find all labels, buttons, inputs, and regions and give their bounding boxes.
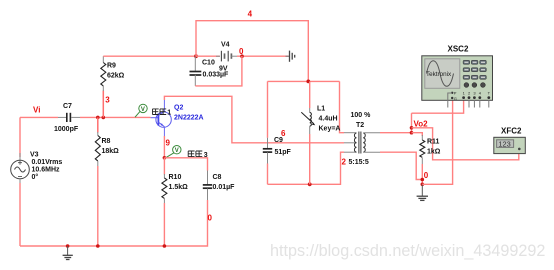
label Vo2 [414,119,429,128]
resistor R11 [420,139,441,185]
svg-text:10.6MHz: 10.6MHz [32,167,61,174]
wire C10 bottom to node 0 [195,56,242,86]
inductor L1 [301,81,340,184]
wire Vo2 to R11 [412,133,423,140]
oscilloscope XSC2 [422,45,493,102]
label node 9 [166,139,171,148]
svg-text:51pF: 51pF [275,149,292,156]
wire node3 up to R9 [102,86,104,117]
wire XFC2 branch [412,128,519,160]
source V3 [11,151,63,183]
svg-text:0: 0 [208,214,213,223]
svg-text:L1: L1 [317,106,325,113]
svg-text:R8: R8 [102,138,111,145]
resistor R8 [95,117,119,246]
scope stub ch3 [473,100,475,108]
battery V4 [196,42,237,73]
wire C8 to rail [20,200,208,246]
node junction 3 [102,116,106,120]
svg-text:100 %: 100 % [351,112,372,119]
wire T2 secondary bottom to node 0 [380,152,422,179]
svg-text:0.01µF: 0.01µF [213,184,236,191]
label node 6 [281,129,286,138]
wire C7 to node 3 [71,116,151,118]
label 2N2222A [174,115,204,122]
svg-text:V3: V3 [30,151,39,158]
svg-text:2N2222A: 2N2222A [174,115,204,122]
svg-text:0.01Vrms: 0.01Vrms [32,159,63,166]
svg-text:C8: C8 [213,174,222,181]
wire R9 top to node4 junction [103,55,196,57]
svg-text:4: 4 [248,10,253,19]
svg-text:T2: T2 [356,122,364,129]
node junction 9 [163,156,167,160]
wire rail node 4 [196,21,308,82]
wire T2 secondary top to Vo2 [380,132,412,134]
svg-text:1.5kΩ: 1.5kΩ [169,184,189,191]
node junction R8 bottom [96,244,100,248]
wire Vo2 vertical [411,113,413,133]
svg-text:XFC2: XFC2 [501,127,522,136]
svg-text:1000pF: 1000pF [54,126,79,133]
scope stub P [448,93,452,108]
resistor R9 [101,56,125,86]
label node 2 [342,158,347,167]
label Vi [33,106,40,115]
ground earth right of V4 [286,51,295,62]
svg-text:6: 6 [281,129,286,138]
frequency counter XFC2 [494,127,526,154]
scope stub ch2 [468,100,470,108]
svg-text:Tektronix: Tektronix [426,71,452,78]
svg-text:3: 3 [105,95,110,104]
label probe3 (CJK tanzhen3) [188,151,208,159]
svg-text:Vo2: Vo2 [414,119,429,128]
svg-text:5:15:5: 5:15:5 [349,159,369,166]
label node 0 C8 [208,214,213,223]
label C9 [274,137,283,144]
svg-text:XSC2: XSC2 [448,45,469,54]
svg-text:2: 2 [342,158,347,167]
label node 4 [248,10,253,19]
label Q2 [174,104,183,111]
svg-text:C10: C10 [202,59,215,66]
transistor Q2 [151,111,172,127]
svg-text:9: 9 [166,139,171,148]
wire R10 to rail [163,203,165,246]
wire tank top [268,80,340,82]
svg-text:Q2: Q2 [174,104,183,111]
wire scope CH1 [412,100,464,114]
wire V3 to rail [19,183,21,246]
svg-text:1: 1 [167,110,171,117]
node junction R11 bottom a [421,178,425,182]
wire node9 to C8 [164,158,207,171]
node junction R10 bottom [163,244,167,248]
node junction 0 battery [240,54,244,58]
node junction R8 [96,116,100,120]
capacitor C10 [190,56,230,86]
node junction 4 [194,54,198,58]
probe 1 [135,104,147,117]
svg-text:0.033µF: 0.033µF [203,72,230,79]
svg-text:123: 123 [498,140,510,149]
wire collector net [164,96,344,143]
svg-text:0°: 0° [32,173,39,181]
svg-text:V4: V4 [221,42,230,49]
svg-text:18kΩ: 18kΩ [102,148,120,155]
probe 3 [166,146,181,158]
scope stub ch4 [479,100,481,108]
node junction Vo2 upper [410,126,414,130]
svg-text:62kΩ: 62kΩ [107,72,125,79]
svg-text:4.4uH: 4.4uH [319,116,338,123]
svg-text:V: V [175,148,179,154]
svg-text:0: 0 [424,171,429,180]
svg-text:V: V [141,107,145,113]
node junction ground bottom [66,244,70,248]
resistor R10 [162,174,188,203]
transistor Q2 emitter lead [163,127,165,158]
wire node9 down R10 [163,158,165,178]
svg-text:Vi: Vi [33,106,40,115]
svg-text:https://blog.csdn.net/weixin_4: https://blog.csdn.net/weixin_43499292 [270,242,545,260]
svg-text:P: P [454,91,457,96]
node junction Vo2 lower [410,131,414,135]
svg-text:C7: C7 [63,103,72,110]
svg-text:R11: R11 [427,139,440,146]
svg-text:C9: C9 [274,137,283,144]
label node 0 battery [239,47,244,56]
svg-text:Key=A: Key=A [319,126,341,133]
wire tank right to T2 primary top [340,81,345,132]
svg-text:G: G [454,96,457,101]
capacitor C8 [203,171,235,201]
label 51pF [275,149,292,156]
wire Vi horizontal to C7 [20,116,66,118]
transistor Q2 collector lead [163,100,165,112]
ground bottom [63,246,73,260]
label node 0 R11 [424,171,429,180]
node junction tank bottom [308,182,312,186]
capacitor C7 [54,103,79,133]
node junction tank top [306,80,310,84]
wire scope G [422,100,452,185]
scope stub T [488,100,490,108]
wire tank bottom node 2 [268,152,345,184]
transformer T2 [344,112,380,166]
wire battery to earth [237,55,289,57]
label probe1 (CJK tanzhen1) [153,109,172,117]
svg-text:1kΩ: 1kΩ [427,149,441,156]
svg-text:0: 0 [239,47,244,56]
svg-text:R9: R9 [107,63,116,70]
watermark [270,242,545,260]
wire Vi vertical from V3 top [19,117,21,160]
svg-text:R10: R10 [169,174,182,181]
node junction R11 bottom b [421,183,425,187]
tank circuit left branch with C9 [263,81,272,184]
label node 3 [105,95,110,104]
ground under R11 [417,184,428,200]
